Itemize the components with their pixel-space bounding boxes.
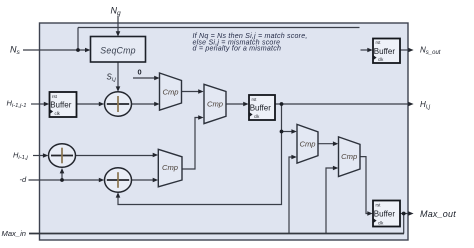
svg-text:Ns: Ns bbox=[10, 45, 21, 57]
svg-text:Hi-1,j-1: Hi-1,j-1 bbox=[7, 99, 27, 109]
svg-text:Hi,j: Hi,j bbox=[420, 100, 431, 110]
svg-text:SeqCmp: SeqCmp bbox=[100, 45, 135, 55]
svg-text:Max_in: Max_in bbox=[2, 229, 26, 238]
svg-text:Buffer: Buffer bbox=[374, 210, 396, 219]
svg-text:Cmp: Cmp bbox=[299, 139, 315, 148]
svg-text:Buffer: Buffer bbox=[50, 101, 72, 110]
svg-text:rst: rst bbox=[252, 97, 258, 102]
svg-text:Nq: Nq bbox=[111, 5, 122, 17]
svg-text:Max_out: Max_out bbox=[420, 209, 456, 219]
svg-text:d = penalty for a mismatch: d = penalty for a mismatch bbox=[193, 45, 282, 53]
svg-text:Cmp: Cmp bbox=[162, 87, 178, 96]
svg-text:Hi-1,j: Hi-1,j bbox=[13, 151, 28, 161]
svg-text:rst: rst bbox=[376, 203, 382, 208]
svg-text:clk: clk bbox=[254, 114, 260, 119]
svg-text:clk: clk bbox=[55, 111, 61, 116]
svg-text:rst: rst bbox=[52, 94, 58, 99]
svg-text:Ns_out: Ns_out bbox=[420, 45, 441, 55]
svg-text:Cmp: Cmp bbox=[162, 163, 178, 172]
svg-text:rst: rst bbox=[376, 40, 382, 45]
svg-text:Cmp: Cmp bbox=[207, 99, 223, 108]
svg-text:Cmp: Cmp bbox=[341, 152, 357, 161]
svg-text:0: 0 bbox=[138, 67, 142, 76]
svg-text:clk: clk bbox=[378, 57, 384, 62]
svg-text:-d: -d bbox=[20, 175, 27, 184]
svg-text:clk: clk bbox=[378, 220, 384, 225]
svg-text:Buffer: Buffer bbox=[374, 47, 396, 56]
svg-text:Buffer: Buffer bbox=[250, 104, 272, 113]
